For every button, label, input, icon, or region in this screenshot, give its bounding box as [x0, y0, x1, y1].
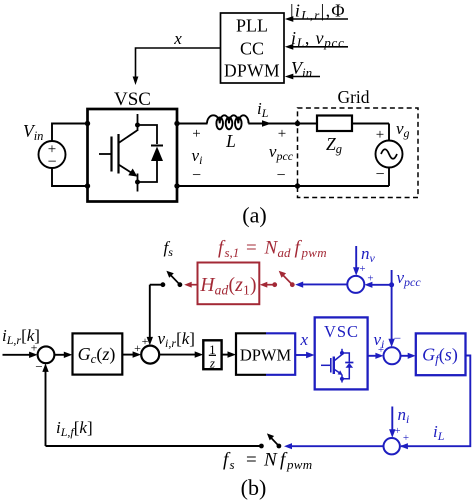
wire vpcc down to sum3 (blue) [388, 270, 394, 347]
node vi labels [192, 126, 203, 184]
wire input iL, vpcc to PLL [285, 28, 348, 50]
block DPWM (half black half blue) [236, 333, 295, 375]
wire VSC to sum3 (blue) [368, 344, 385, 359]
summing junction S-nv (blue) [347, 276, 364, 293]
impedance Zg [317, 116, 352, 157]
svg-text:vi,r[k]: vi,r[k] [158, 329, 195, 350]
svg-text:Gc(z): Gc(z) [78, 344, 116, 366]
svg-text:(a): (a) [242, 203, 266, 228]
wire feedback up to sum1 [42, 363, 48, 446]
svg-text:+: + [359, 263, 365, 275]
svg-text:−: − [192, 167, 201, 184]
wire DPWM to VSC (blue) [295, 352, 314, 358]
sampler switch fs1 (red) [272, 271, 294, 287]
node VSC right bottom [174, 183, 179, 188]
svg-text:+: + [192, 126, 200, 142]
svg-text:+: + [403, 432, 409, 444]
svg-text:−: − [394, 331, 401, 346]
wire input Vin to PLL [285, 58, 320, 80]
block 1/z [203, 340, 221, 370]
summing junction S-ni (blue) [384, 432, 410, 454]
block PLL/CC/DPWM [221, 13, 285, 83]
block Gc(z) [73, 333, 123, 374]
svg-text:+: + [394, 425, 400, 437]
svg-text:−: − [276, 167, 285, 184]
summing junction S2 [134, 334, 159, 364]
wire input to sum1 [3, 352, 38, 358]
diode inside VSC [138, 125, 164, 182]
wire sampler fs to down-corner [150, 284, 163, 286]
wire feedback bottom horizontal (black) [46, 445, 262, 447]
sampler switch fs=Nfpwm (black) [259, 433, 281, 448]
wire sum-nv to sampler fs1 (blue) [295, 282, 347, 288]
svg-text:VSC: VSC [324, 322, 359, 341]
wire Zg to vg [388, 124, 390, 141]
grid dashed box [298, 87, 419, 198]
svg-text:−: − [35, 359, 42, 374]
svg-text:VSC: VSC [114, 89, 151, 110]
block Had(z1) (red) [198, 263, 260, 305]
svg-text:+: + [31, 341, 38, 355]
wire bottom rail (a) [177, 185, 389, 187]
wire VSC to inductor [177, 123, 208, 125]
svg-text:CC: CC [240, 39, 264, 59]
wire ni input (blue) [389, 405, 409, 438]
node pcc bottom [295, 183, 300, 188]
wire iL feedback (blue) from Gf down and left [400, 356, 470, 450]
wire sum2 to 1/z [159, 351, 203, 357]
svg-text:x: x [173, 29, 182, 48]
wire sum3 to Gf (blue) [401, 353, 416, 359]
summing junction S1 [31, 341, 55, 375]
node VSC right top [174, 121, 179, 126]
node VSC left top [85, 121, 90, 126]
wire vg to bottom rail [388, 168, 390, 187]
source vg [375, 119, 409, 183]
svg-text:−: − [47, 154, 56, 171]
svg-text:+: + [376, 127, 384, 143]
wire sum1 to Gc [54, 352, 72, 358]
node vpcc labels [269, 126, 294, 184]
wire 1/z to DPWM [222, 351, 236, 357]
svg-text:L: L [225, 131, 236, 151]
wire Vin to VSC top [52, 124, 88, 142]
wire sampler fs down to sum2 [147, 285, 153, 346]
diode mini (blue) [342, 353, 353, 379]
wire vpcc to sum-nv (blue) [364, 273, 391, 288]
svg-text:Grid: Grid [337, 87, 369, 107]
svg-text:z: z [209, 356, 215, 371]
inductor L [207, 115, 249, 151]
svg-text:x: x [300, 330, 309, 349]
svg-text:+: + [367, 273, 373, 285]
converter VSC box [88, 89, 178, 202]
wire Had output (red arrow pointing left) [184, 282, 197, 288]
svg-text:+: + [142, 334, 149, 348]
transistor mini IGBT (blue) [321, 349, 344, 383]
block VSC (blue) [315, 317, 368, 389]
wire nv input (blue) [353, 244, 376, 276]
sampler switch fs (black) [161, 271, 183, 287]
block Gf(s) (blue) [416, 333, 466, 375]
svg-text:(b): (b) [241, 475, 267, 500]
wire x (PLL output to VSC) [133, 48, 221, 85]
wire sum-ni to sampler (blue) [284, 443, 384, 449]
svg-text:PLL: PLL [236, 16, 268, 36]
svg-text:DPWM: DPWM [240, 346, 292, 365]
summing junction S3 (blue) [384, 331, 402, 365]
svg-text:+: + [134, 341, 141, 355]
svg-text:+: + [278, 126, 286, 142]
wire inductor to grid with iL arrow [248, 99, 389, 127]
svg-text:DPWM: DPWM [224, 61, 280, 81]
wire sampler to Had box (red, arrow into box) [260, 282, 275, 288]
svg-text:−: − [375, 166, 384, 183]
node pcc top [295, 121, 300, 126]
svg-text:Gf(s): Gf(s) [422, 345, 458, 367]
source Vin [23, 121, 66, 171]
node VSC left bottom [85, 183, 90, 188]
wire input |iL,r|,Phi to PLL [285, 1, 348, 23]
wire Vin to VSC bottom [52, 168, 88, 186]
wire Gc to sum2 [122, 351, 141, 357]
transistor IGBT inside VSC [99, 114, 140, 192]
